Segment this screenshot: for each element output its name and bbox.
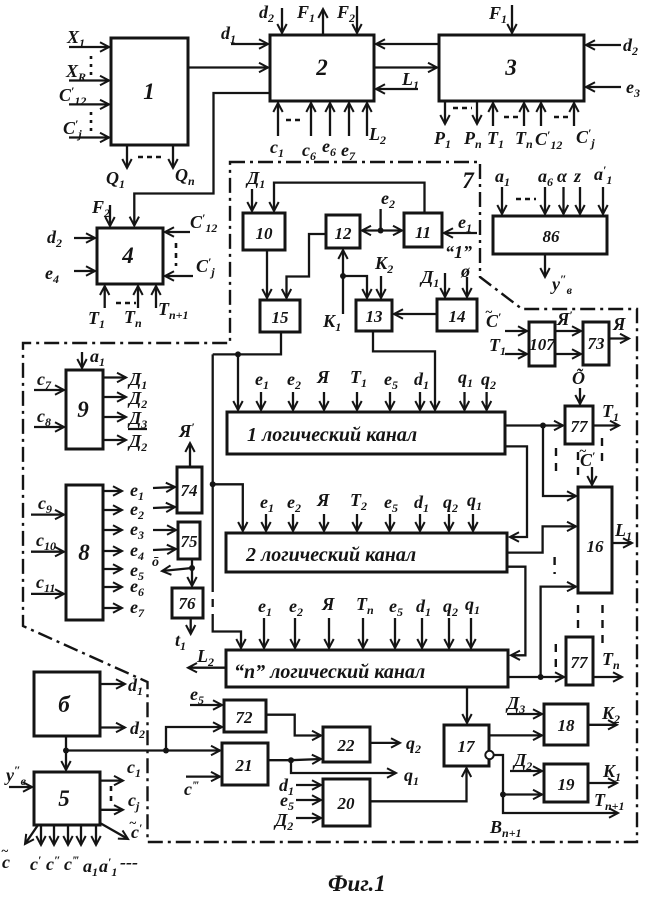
wire O into 77a top [579,388,581,404]
block 18 [544,704,588,745]
wire c7 into block9 [34,389,64,391]
wire c1 output block5 [100,779,123,781]
wire block75 to block76 [191,559,193,586]
canaln input d1 [421,618,423,648]
wire block20 to block17 bottom [370,768,467,801]
block 13 [356,300,392,331]
svg-text:~: ~ [485,304,493,319]
block 20 [323,779,370,826]
wire T1 output 77a [593,424,619,426]
canal 2 block [226,533,507,572]
svg-text:Я: Я [316,367,330,387]
wire block10 to block15 [266,250,268,298]
wire block21 output [268,759,291,761]
wire z into block86 [579,187,581,214]
wire c1 into block2 bottom [277,103,279,136]
svg-text:19: 19 [558,775,576,794]
wire C'j input [69,136,109,138]
block 3 [439,35,584,101]
block 16 [578,487,612,593]
dashes between a1 and a6 [516,198,536,201]
wire C~' into block107 [505,330,527,332]
wire canal1 to canal2 right input [505,446,527,537]
canal1 input e2 [292,392,294,410]
wire d2 into block4 [74,237,95,239]
dashed ellipsis below 77a left [555,448,557,471]
wire o-bar arrow left [162,568,192,571]
wire e2 output block8 [103,509,122,511]
canal1 input Ya [323,392,325,410]
wire a'1 output block5 [95,825,97,845]
svg-text:ø: ø [460,261,471,281]
wire Pn output [476,101,478,124]
wire block107 to block73 lower [555,353,581,355]
canaln input e5 [394,618,396,648]
block 73 [583,322,609,365]
wire D1 into block10 top [251,189,253,211]
wire L2 output canaln [188,667,226,669]
wire canal2 to 16 input2 [507,526,576,552]
wire Ya' up from block74 [189,443,191,467]
inverting circle block17 [485,751,493,759]
canaln input e1 [263,618,265,648]
wire e4 into block75 [153,549,176,550]
wire Ya output of block73 [609,337,629,339]
svg-text:8: 8 [78,540,90,565]
canal1 input q2 [485,392,487,410]
svg-text:76: 76 [179,594,197,613]
block 19 [544,764,588,802]
svg-text:~: ~ [129,815,137,830]
wire y''v into block5 [9,786,32,788]
svg-text:1 логический канал: 1 логический канал [247,424,417,446]
svg-text:77: 77 [571,417,590,436]
block 10 [243,213,285,250]
wire e3 into block3 right [586,86,621,88]
block 76 [172,588,203,618]
block 1 [111,38,188,145]
svg-text:15: 15 [272,308,290,327]
wire block15 output down-left [213,332,281,354]
wire a1 into block9 top [81,352,83,368]
wire block6 down to block5 [65,736,67,770]
wire canal1 to 77a [505,424,563,426]
svg-text:21: 21 [235,756,253,775]
svg-text:Я: Я [321,594,335,614]
junction dot Bn+1 [500,792,506,798]
block 77b [566,637,593,685]
wire c6 into block2 bottom [310,103,312,136]
svg-text:73: 73 [588,334,606,353]
wire Tn into block3 bottom [523,103,525,126]
wire canaln branch into 16 input3 [541,587,576,677]
canal2 input d1 [419,514,421,531]
wire D2bar output block9 [103,439,126,441]
dashed ellipsis below 16 left [577,605,579,634]
wire K2 into block13 top [380,276,382,298]
svg-text:~: ~ [579,443,587,458]
svg-text:α: α [557,166,568,186]
wire block107 to block73 upper [555,330,581,332]
wire cj output block5 [100,809,123,811]
wire e2 into block74 [153,507,175,508]
wire C'12 input [69,103,109,105]
wire K1 output block19 [588,782,617,784]
canal1 input T1 [356,392,358,410]
canal n block [226,650,508,687]
wire Q1 output [126,145,128,168]
canal2 input T2 [356,514,358,531]
svg-text:17: 17 [458,737,477,756]
block 4 [97,228,163,284]
canal2 input q2 [448,514,450,531]
svg-text:22: 22 [337,736,356,755]
wire d1 into block20 [296,784,321,786]
svg-text:72: 72 [236,708,254,727]
wire K1 branch into block13 top [343,276,367,298]
svg-text:2 логический канал: 2 логический канал [245,544,416,566]
wire canaln to 77b [508,676,564,678]
wire c9 into block8 [31,513,64,515]
dashed ellipsis left of 77b [555,644,557,667]
block 22 [323,727,370,762]
dots between C'12 and C'j [90,112,93,132]
wire e7 output block8 [103,607,122,609]
wire e4 into block4 [74,270,95,272]
wire q1 output [291,760,396,773]
svg-text:12: 12 [335,224,353,243]
wire long vertical left solid [212,354,214,584]
svg-text:16: 16 [587,537,605,556]
wire e1 output block8 [103,490,122,492]
junction dot canal2 branch [210,481,216,487]
svg-text:1: 1 [143,79,155,104]
svg-text:~: ~ [1,843,9,858]
wire T1 into block107 [505,353,527,355]
svg-text:ō: ō [152,555,159,570]
wire block3 to block2 [376,43,439,45]
wire L1 output 16 [612,542,632,544]
wire branch up into block72 [166,727,222,751]
block 21 [222,743,268,785]
wire d2 into block2 top [281,8,283,33]
wire F1 out of block2 top [322,9,324,35]
svg-text:б: б [58,692,71,717]
block 8 [66,485,103,620]
dashes between T1 and Tn block4 [116,302,136,305]
svg-text:Я: Я [316,490,330,510]
wire canaln bottom to block17 [466,687,468,723]
wire block12 left to block15 top [287,234,327,298]
wire D1 output block9 [103,376,126,378]
dashes between C'12 and C'j [554,116,568,119]
wire y''v output of block86 [544,254,546,277]
wire Tn into block4 bottom [137,286,139,308]
block 5 [34,772,100,825]
svg-text:“n” логический канал: “n” логический канал [234,661,425,683]
wire c''' into block21 [186,775,220,777]
wire e5 output block8 [103,568,122,570]
svg-text:3: 3 [504,55,517,80]
canal2 input e1 [265,514,267,531]
wire e7 into block2 bottom [348,103,350,136]
wire link to block11 [381,229,402,231]
block 2 [270,35,374,101]
wire canal1 branch into 16 input1 [543,426,576,497]
block 107 [529,322,555,366]
svg-text:14: 14 [449,307,466,326]
wire c-tilde diag output block5 [25,825,38,844]
wire branch into canal1 first input [237,354,239,410]
dashed ellipsis left of C~' [577,452,579,482]
dashed ellipsis below 16 right [601,605,603,643]
junction dot o-bar branch [189,565,195,571]
wire block17 to block18 [489,734,542,736]
wire D3 into block18 [507,713,542,715]
wire e4 output block8 [103,550,122,552]
wire c11 into block8 [31,593,64,595]
wire P1 output [444,101,446,124]
wire branch into block21 [166,749,220,751]
block 9 [66,370,103,449]
wire c8 into block9 [34,426,64,428]
canal2 input q1 [472,514,474,531]
junction dot canal1 out [540,423,546,429]
canal2 input Ya [323,514,325,531]
wire e3 into block75 [153,529,176,531]
wire D2 output block9 [103,396,126,398]
wire block2 to block3 [374,66,437,68]
canaln input e2 [294,618,296,648]
wire X1 input [69,46,109,48]
wire F1 into block3 top [511,5,513,33]
wire block2 to block4 [134,93,270,226]
wire a6 into block86 [544,187,546,214]
canaln input q1 [470,618,472,648]
wire branch into canal2 first input [213,484,243,531]
wire D3 output block9 [103,416,126,418]
junction dot on 15 wire [235,351,241,357]
svg-text:Я: Я [612,314,626,334]
wire zero into block14 top [466,277,468,297]
wire C'j into block3 bottom [573,103,575,126]
wire alpha into block86 [562,187,564,214]
wire link to block12 [362,229,381,231]
wire C~' into 16 top [591,467,593,485]
svg-text:20: 20 [337,794,356,813]
wire K1 into block12 bottom [342,250,344,314]
svg-text:4: 4 [121,243,134,268]
svg-text:z: z [573,166,581,186]
wire block13 output to canal1 [373,331,435,410]
wire d1 output block6 [100,683,125,685]
wire block72 to block22 [266,715,321,736]
canal2 input e2 [292,514,294,531]
block 17 [444,725,489,766]
block 6 [34,672,100,736]
wire e6 into block2 bottom [329,103,331,136]
svg-text:77: 77 [571,653,590,672]
wire D2 into block20 [296,817,321,819]
dash-dot enclosure border [23,162,637,842]
wire e3 output block8 [103,529,122,531]
dashes between T1 and Tn [504,116,520,119]
wire branch into block19 lower [503,793,542,795]
wire canal2 to canaln right input [507,567,525,656]
dashes between P1 and Pn [453,107,472,110]
junction dot block21 out [288,757,294,763]
wire d2 output block6 [100,726,125,728]
junction dot below block6 [63,748,69,754]
canaln input Tn [362,618,364,648]
wire D1 into block14 top [444,273,446,297]
wire Qn output [172,145,174,168]
wire e5 into block20 [296,799,321,801]
svg-text:10: 10 [256,224,274,243]
wire F2 into block2 top [356,6,358,33]
wire C'12 into block4 right [165,231,190,233]
block 11 [404,213,442,247]
wire e1 into block11 right [444,232,477,234]
dots between X1 and XR [90,56,93,76]
block 75 [178,522,200,559]
wire e6 output block8 [103,586,122,588]
canal 1 block [227,412,505,454]
wire F2 into block4 top [109,205,111,226]
block 72 [224,700,266,732]
canaln input q2 [448,618,450,648]
svg-text:75: 75 [181,532,199,551]
wire t1 output block76 [190,618,192,634]
canal1 input e5 [389,392,391,410]
dashed ellipsis above 77b left [553,557,555,574]
wire c-tilde-prime diag output block5 [100,823,128,839]
overline of D2bar [128,428,147,430]
wire e1 into block74 [153,487,175,488]
svg-text:“1”: “1” [445,242,472,262]
canal2 input e5 [389,514,391,531]
wire D2 into block19 [510,770,542,772]
svg-text:107: 107 [529,335,556,354]
wire d2 into block3 right [586,44,621,46]
canal1 input d1 [419,392,421,410]
wire C'12 into block3 bottom [540,103,542,126]
wire block1 to block2 [188,66,268,68]
junction dot canaln out [538,674,544,680]
wire d1 into block2 [231,43,268,45]
wire block14 to block13 [394,313,437,315]
wire c10 into block8 [31,551,64,553]
wire into block22 lower [291,759,321,760]
wire c''' output block5 [67,825,69,845]
svg-text:5: 5 [58,786,70,811]
svg-text:Õ: Õ [572,367,585,388]
wire C'j into block4 right [165,275,193,277]
dashes between c1 and cj [110,786,113,802]
svg-text:11: 11 [415,223,431,242]
wire long vertical dashed part [212,584,214,621]
wire c' output block5 [40,825,42,845]
canaln input Ya [328,618,330,648]
wire a1 into block86 [501,187,503,214]
svg-text:7: 7 [462,168,475,193]
wire T1 into block4 bottom [104,286,106,308]
dashes between Q1 and Qn [138,156,162,159]
wire T1 into block3 bottom [492,103,494,126]
canal1 input q1 [463,392,465,410]
svg-text:13: 13 [366,307,384,326]
svg-text:9: 9 [77,397,89,422]
wire c'' output block5 [53,825,55,845]
junction dot K1 branch [340,273,346,279]
block 74 [177,467,202,513]
wire L2 into block2 bottom [366,103,368,136]
wire a1 output block5 [80,825,82,845]
wire Tn+1 into block4 bottom [155,286,157,308]
block 12 [326,215,360,248]
block 77a [565,406,593,444]
wire a'1 into block86 [602,187,604,214]
wire long vertical into canal n [213,621,241,648]
svg-text:86: 86 [543,227,561,246]
wire XR input [69,79,109,81]
canal1 input e1 [260,392,262,410]
dashes between c1 and c6 [286,119,303,122]
junction dot e2 [378,228,384,234]
svg-text:18: 18 [558,716,576,735]
block 15 [260,300,300,332]
wire from circle to right net [494,755,618,813]
wire block11 top to block10 top [274,183,425,213]
junction dot net branch [163,748,169,754]
wire K2 output block18 [588,724,617,726]
svg-text:74: 74 [181,481,198,500]
dashes between C'12 and C'j block4 [175,243,178,266]
svg-text:2: 2 [315,55,328,80]
wire Tn output 77b [593,676,622,678]
wire q2 output block22 [370,742,400,744]
wire L1 into block2 [376,88,418,90]
block 14 [437,299,477,331]
wire net right from block6 [66,749,166,751]
wire e2 stem to 12-11 link [379,209,381,231]
dashed ellipsis below 73 [601,438,603,464]
wire e5 into block72 [190,704,222,706]
svg-text:---: --- [120,852,138,872]
svg-text:Фиг.1: Фиг.1 [328,871,386,896]
block 86 [493,216,607,254]
